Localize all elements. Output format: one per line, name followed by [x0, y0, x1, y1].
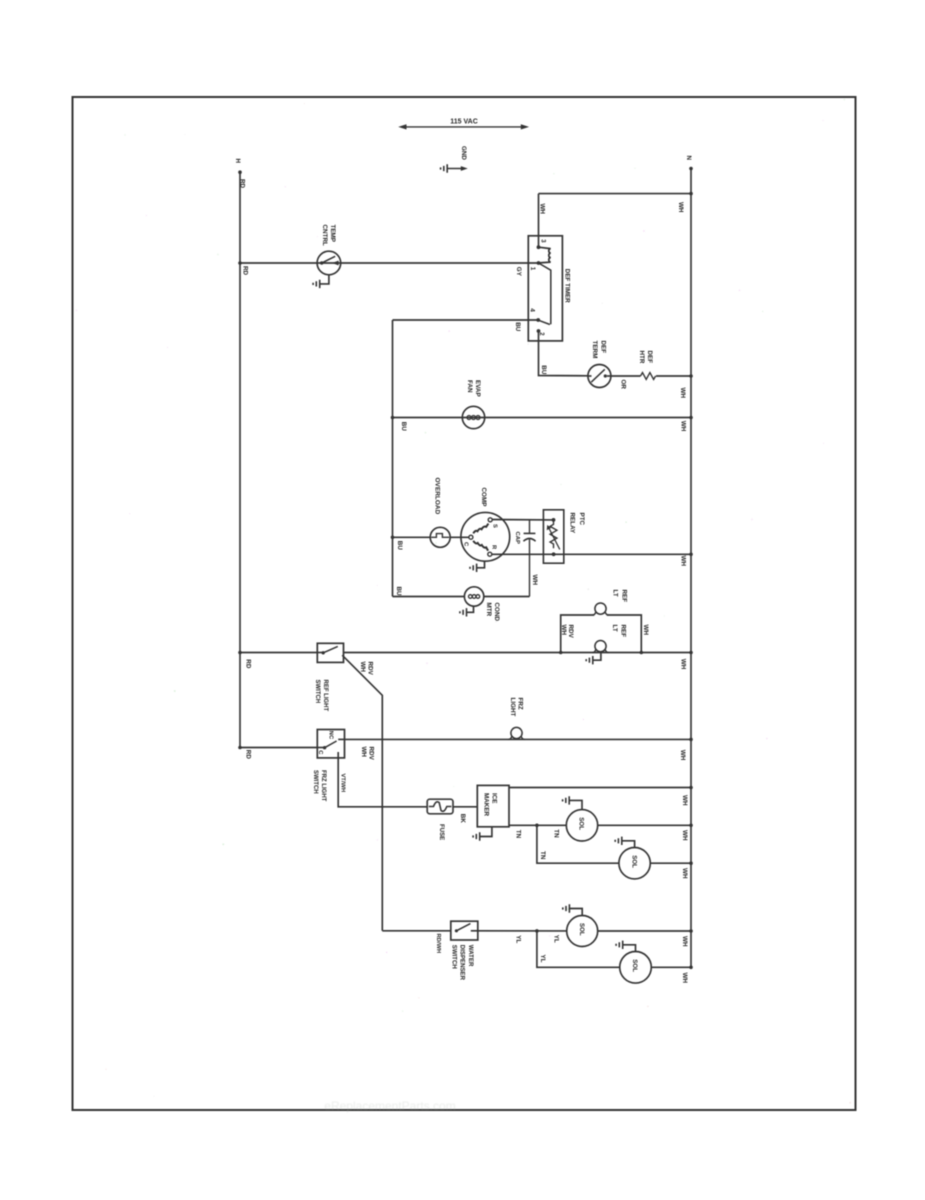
svg-text:3: 3	[539, 239, 545, 243]
svg-text:BU: BU	[514, 322, 521, 332]
junction YL branch	[535, 929, 539, 933]
wire timer pin3 riser	[538, 194, 540, 248]
svg-text:LT: LT	[611, 625, 618, 632]
svg-text:FRZ: FRZ	[517, 698, 524, 710]
fuse FUSE	[427, 799, 453, 814]
wire sol3 to bus	[598, 930, 691, 932]
lamp FRZ LIGHT	[511, 727, 522, 738]
wire timer pin2 drop	[539, 331, 589, 376]
svg-text:LIGHT: LIGHT	[509, 698, 516, 717]
svg-text:RELAY: RELAY	[568, 513, 575, 535]
junction N-top	[689, 192, 693, 196]
svg-text:N: N	[685, 156, 692, 161]
page border frame	[73, 97, 856, 1110]
lamp REF LT upper	[595, 603, 606, 614]
wire evap fan line	[393, 417, 692, 419]
svg-text:BU: BU	[395, 587, 402, 597]
junction N-ice	[689, 786, 693, 790]
svg-text:FAN: FAN	[466, 380, 473, 393]
ground cond motor	[467, 606, 474, 612]
svg-text:TN: TN	[552, 829, 559, 838]
timer box DEF TIMER	[528, 236, 562, 341]
svg-text:R: R	[490, 545, 496, 550]
ground ref lamp	[593, 653, 601, 661]
wire timer pin4 BU	[393, 319, 539, 321]
motor COMP compressor	[461, 512, 510, 561]
svg-text:WH: WH	[560, 625, 567, 636]
wire ref switch to dispenser drop	[342, 655, 382, 931]
svg-text:WH: WH	[538, 204, 545, 215]
wire ice maker top WH	[509, 787, 691, 789]
svg-text:WH: WH	[359, 662, 366, 673]
switch REF LIGHT SWITCH	[317, 643, 343, 662]
ground ice maker	[480, 827, 492, 837]
svg-text:115 VAC: 115 VAC	[450, 119, 478, 126]
svg-text:REF LIGHT: REF LIGHT	[322, 680, 328, 712]
svg-text:RDV: RDV	[567, 625, 574, 639]
svg-text:REF: REF	[620, 625, 627, 638]
svg-text:OR: OR	[620, 380, 627, 390]
svg-text:WH: WH	[681, 973, 688, 984]
wire fuse to ice maker BK	[453, 806, 477, 808]
svg-text:TN: TN	[539, 851, 546, 860]
svg-text:OVERLOAD: OVERLOAD	[434, 478, 441, 515]
svg-text:RD: RD	[242, 266, 249, 276]
svg-text:FUSE: FUSE	[438, 824, 445, 840]
junction N-defhtr	[689, 374, 693, 378]
overload protector OVERLOAD	[430, 527, 450, 547]
wire comp run line WH	[492, 553, 691, 555]
svg-text:BU: BU	[400, 422, 407, 432]
svg-text:WATER: WATER	[467, 945, 474, 967]
pin 3	[537, 245, 541, 249]
svg-text:RDV: RDV	[367, 747, 374, 761]
svg-text:CAP: CAP	[514, 532, 520, 545]
svg-text:HTR: HTR	[638, 351, 645, 364]
svg-text:RDV: RDV	[366, 662, 373, 676]
ground symbol GND	[447, 168, 463, 170]
resistor DEF HTR	[611, 375, 641, 377]
junction BU-comp	[391, 536, 395, 540]
junction H-frz end	[238, 746, 242, 750]
svg-text:DEF TIMER: DEF TIMER	[563, 269, 570, 303]
PTC resistor element	[550, 520, 557, 548]
svg-text:eReplacementParts.com: eReplacementParts.com	[324, 1099, 455, 1113]
svg-text:WH: WH	[642, 625, 649, 636]
svg-text:REF: REF	[620, 590, 627, 603]
wire ref light line to lamps	[344, 652, 692, 654]
svg-text:WH: WH	[681, 795, 688, 806]
svg-text:LT: LT	[611, 590, 618, 597]
svg-text:CNTRL: CNTRL	[321, 225, 328, 246]
svg-text:FRZ LIGHT: FRZ LIGHT	[320, 770, 326, 802]
junction TN branch	[535, 824, 539, 828]
svg-text:RD/WH: RD/WH	[435, 934, 441, 954]
junction N-sol1	[689, 824, 693, 828]
thermostat DEF TERM	[588, 365, 611, 388]
svg-text:S: S	[491, 524, 497, 528]
svg-text:WH: WH	[679, 388, 686, 399]
wire dispenser to solenoids YL	[478, 930, 567, 932]
timer switch arm	[539, 263, 551, 325]
wire sol4 to bus	[651, 966, 691, 968]
wire cond motor line BU	[393, 596, 465, 598]
wire ref light line RD	[240, 652, 317, 654]
svg-text:WH: WH	[679, 750, 686, 761]
ground sol1	[569, 800, 582, 809]
wire YL branch drop	[537, 931, 620, 967]
svg-text:SOL: SOL	[631, 959, 638, 972]
ground temp control	[320, 275, 329, 284]
wire WH top	[539, 193, 692, 195]
svg-text:SOL: SOL	[578, 817, 585, 830]
svg-text:GND: GND	[460, 146, 467, 160]
svg-text:GY: GY	[515, 267, 522, 277]
wire lamp loop	[561, 615, 642, 653]
svg-text:VT/WH: VT/WH	[339, 774, 345, 793]
svg-text:4: 4	[528, 308, 535, 312]
svg-text:DISPENSER: DISPENSER	[459, 945, 466, 981]
wire ice maker solenoid line TN	[509, 824, 566, 826]
relay box PTC RELAY	[543, 510, 563, 563]
switch WATER DISPENSER SWITCH	[451, 921, 478, 940]
wire water dispenser line	[382, 930, 451, 932]
solenoid SOL 1	[566, 810, 597, 841]
svg-text:NC: NC	[327, 731, 333, 740]
junction N-sol3	[689, 929, 693, 933]
svg-text:COND: COND	[493, 603, 500, 622]
svg-text:WH: WH	[681, 868, 688, 879]
wire compressor line BU	[393, 536, 431, 538]
svg-text:WH: WH	[679, 421, 686, 432]
wire BU bus	[392, 320, 394, 597]
motor EVAP FAN	[462, 406, 484, 428]
svg-text:YL: YL	[515, 935, 522, 943]
wire temp control line RD-GY	[240, 262, 539, 264]
thermostat TEMP CNTRL	[317, 251, 341, 275]
svg-text:RD: RD	[245, 659, 252, 669]
junction N-run	[689, 553, 693, 557]
dimension arrow 115 VAC	[402, 126, 526, 128]
svg-text:TERM: TERM	[591, 341, 598, 359]
pin 2	[537, 329, 541, 333]
junction lamp-left	[559, 651, 563, 655]
solenoid SOL 4	[620, 952, 652, 984]
pin 4	[536, 318, 540, 322]
svg-text:WH: WH	[681, 830, 688, 841]
svg-text:MAKER: MAKER	[483, 793, 490, 817]
capacitor CAP	[529, 520, 531, 533]
pin 1	[537, 261, 541, 265]
junction BU-evap	[391, 416, 395, 420]
timer motor coil	[539, 247, 551, 263]
solenoid SOL 2	[619, 848, 650, 879]
svg-text:DEF: DEF	[646, 351, 653, 364]
svg-text:WH: WH	[680, 556, 687, 567]
svg-text:RD: RD	[245, 750, 252, 760]
ground compressor	[477, 561, 485, 568]
junction lamp-right	[640, 651, 644, 655]
node PTC bottom	[552, 552, 556, 556]
node PTC top	[552, 518, 556, 522]
svg-text:WH: WH	[677, 202, 684, 213]
svg-text:1: 1	[529, 267, 536, 271]
wire sol1 to bus	[598, 824, 691, 826]
svg-text:H: H	[234, 159, 241, 164]
junction H-ref	[238, 651, 242, 655]
wire TN branch drop	[537, 825, 619, 863]
svg-text:SWITCH: SWITCH	[314, 680, 320, 704]
svg-text:SWITCH: SWITCH	[450, 945, 457, 969]
junction H-temp	[238, 261, 242, 265]
svg-text:MTR: MTR	[485, 603, 492, 617]
svg-text:WH: WH	[531, 575, 538, 586]
junction N-evap	[689, 416, 693, 420]
junction N-ref	[689, 651, 693, 655]
svg-text:ICE: ICE	[490, 793, 497, 804]
switch FRZ LIGHT SWITCH	[317, 730, 344, 758]
ground sol3	[569, 909, 582, 916]
svg-text:YL: YL	[539, 955, 546, 963]
motor COND MTR	[464, 587, 483, 606]
lamp REF LT lower	[595, 641, 606, 652]
svg-text:WH: WH	[360, 747, 367, 758]
svg-text:BU: BU	[540, 365, 547, 375]
svg-text:DEF: DEF	[600, 341, 607, 354]
wire sol2 to bus	[650, 862, 691, 864]
svg-text:YL: YL	[552, 935, 559, 943]
box ICE MAKER	[477, 785, 509, 826]
node H terminal	[238, 170, 242, 174]
svg-text:COMP: COMP	[480, 488, 487, 507]
wire frz switch NO drop VT/WH	[338, 752, 427, 807]
junction N-frz	[689, 738, 693, 742]
svg-text:SOL: SOL	[630, 855, 637, 868]
ground sol2	[622, 841, 635, 848]
svg-text:WH: WH	[681, 936, 688, 947]
junction N-sol4	[689, 966, 693, 970]
svg-text:PTC: PTC	[578, 513, 585, 526]
wire frz light switch line RD	[240, 747, 317, 749]
wire N bus	[690, 169, 692, 968]
svg-text:TN: TN	[515, 830, 522, 839]
svg-text:WH: WH	[680, 659, 687, 670]
ground sol4	[623, 945, 636, 952]
svg-text:BK: BK	[459, 814, 466, 824]
svg-text:EVAP: EVAP	[474, 380, 481, 397]
svg-text:TEMP: TEMP	[329, 225, 336, 243]
node N terminal	[689, 167, 693, 171]
svg-text:SWITCH: SWITCH	[312, 770, 318, 794]
solenoid SOL 3	[567, 916, 598, 947]
svg-text:BU: BU	[396, 541, 403, 551]
wire H bus	[239, 172, 241, 747]
wire comp S to PTC	[492, 519, 554, 521]
wire frz light line	[345, 738, 692, 740]
svg-text:SOL: SOL	[578, 923, 585, 936]
junction N-sol2	[689, 861, 693, 865]
wire overload to comp	[450, 536, 469, 538]
